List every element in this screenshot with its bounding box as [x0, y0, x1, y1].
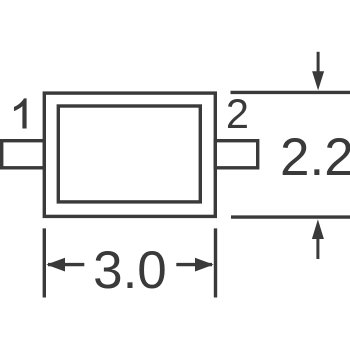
arrowhead left (3.0 dim): [46, 258, 65, 272]
arrowhead down (2.2 dim): [312, 71, 324, 90]
arrowhead up (2.2 dim): [312, 219, 324, 239]
svg-text:2: 2: [226, 90, 249, 137]
extension line right (3.0 dim): [214, 228, 217, 297]
lead 2 (right terminal): [215, 141, 257, 168]
package body outline: [44, 93, 215, 216]
dimension line 3.0 left segment: [48, 263, 84, 266]
dimension line 3.0 right segment: [176, 263, 212, 266]
extension line left (3.0 dim): [43, 228, 46, 297]
package top-face inner rect: [58, 106, 200, 202]
arrowhead right (3.0 dim): [195, 258, 214, 272]
lead 1 (left terminal): [2, 141, 45, 168]
arrow tail bottom (2.2 dim): [316, 239, 319, 260]
pin number 1: [14, 98, 27, 128]
extension line top (2.2 dim): [231, 91, 350, 94]
arrow tail top (2.2 dim): [317, 52, 320, 72]
svg-text:2.2: 2.2: [280, 128, 350, 187]
extension line bottom (2.2 dim): [231, 215, 350, 218]
svg-text:3.0: 3.0: [93, 241, 167, 300]
